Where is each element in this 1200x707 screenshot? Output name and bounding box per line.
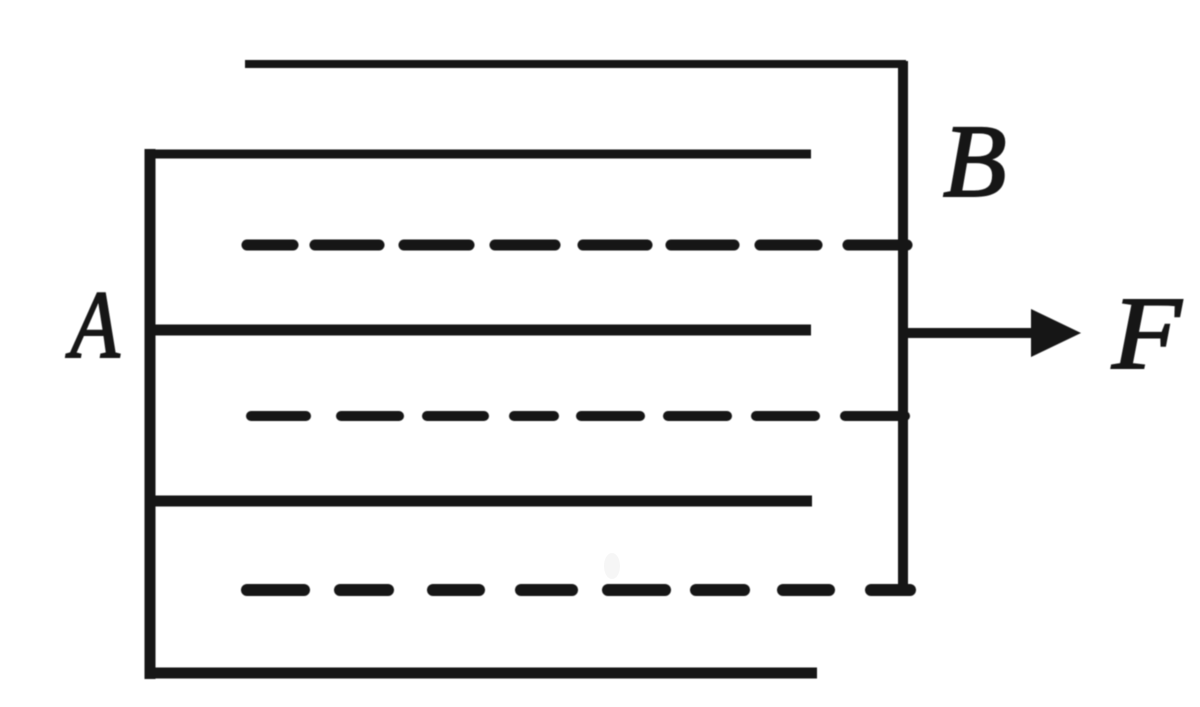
faint scan smudge	[604, 553, 620, 579]
plate B dashed tooth 3	[247, 584, 910, 596]
svg-text:A: A	[66, 273, 121, 379]
plate A tooth 1 (solid top)	[146, 150, 811, 159]
plate A tooth 4 (solid bottom)	[146, 668, 817, 679]
plate B right spine (vertical)	[898, 61, 908, 596]
plate A tooth 3 (solid)	[146, 496, 812, 507]
plate A left spine (vertical)	[145, 149, 156, 679]
force arrow F shaft	[903, 328, 1040, 338]
plate B dashed tooth 1	[247, 240, 907, 251]
force arrow F head	[1031, 309, 1081, 357]
svg-text:F: F	[1111, 275, 1183, 391]
plate A tooth 2 (solid middle)	[146, 325, 811, 336]
plate B dashed tooth 2	[251, 411, 905, 421]
svg-text:B: B	[943, 104, 1007, 219]
plate B top tooth (solid)	[245, 60, 906, 68]
